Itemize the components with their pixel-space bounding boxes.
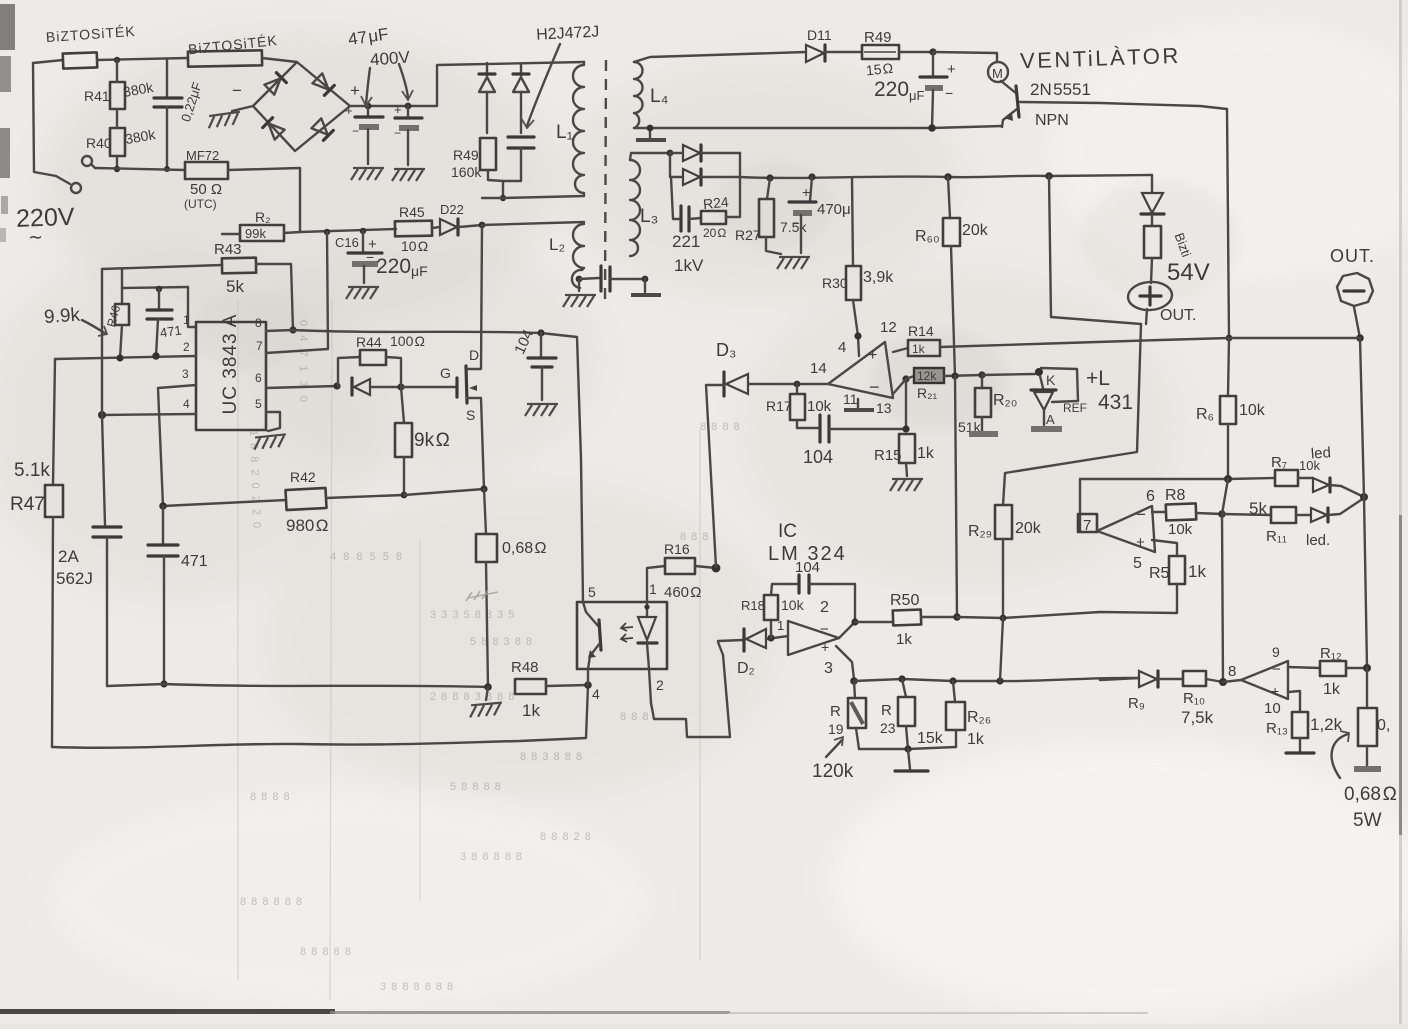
svg-text:L₃: L₃	[640, 206, 658, 227]
svg-text:led.: led.	[1306, 532, 1330, 549]
wire pin2	[55, 356, 196, 359]
svg-text:OUT.: OUT.	[1330, 246, 1375, 266]
svg-text:R18: R18	[741, 598, 765, 613]
svg-text:8 8 8 8 8: 8 8 8 8 8	[300, 946, 352, 958]
resistor R48 1k	[511, 659, 588, 720]
svg-text:R43: R43	[214, 241, 242, 258]
svg-text:S: S	[466, 407, 475, 423]
node L3 bottom	[642, 276, 649, 283]
ground at R48	[469, 687, 503, 717]
dashed transformer core	[605, 60, 606, 300]
node R20 top	[978, 371, 985, 378]
svg-text:K: K	[1046, 372, 1056, 388]
wire opto pin2 jog	[651, 642, 730, 737]
resistor R40 380k	[86, 109, 157, 169]
wire opto pin1 to R16	[647, 566, 665, 602]
svg-text:1k: 1k	[1188, 562, 1206, 581]
svg-text:2: 2	[820, 599, 829, 616]
diode Dr2	[670, 153, 740, 185]
resistor R49 15ohm	[862, 29, 933, 78]
svg-text:10k: 10k	[807, 398, 832, 415]
svg-text:4 8 8 5 5 8: 4 8 8 5 5 8	[330, 551, 404, 563]
svg-text:471: 471	[159, 322, 183, 340]
svg-text:6: 6	[1146, 488, 1155, 505]
wire lower bus	[854, 678, 1139, 681]
svg-text:R42: R42	[290, 469, 316, 485]
wire stub rail to R46 rail	[121, 269, 123, 288]
node diode left	[333, 382, 340, 389]
resistor R20 51k	[958, 375, 1017, 435]
svg-text:+: +	[1271, 683, 1279, 699]
resistor 0.68 source sense	[476, 489, 546, 687]
resistor R45 10ohm	[395, 204, 432, 254]
node gnd R23	[904, 745, 911, 752]
svg-text:R₆: R₆	[1196, 406, 1214, 423]
svg-text:10k: 10k	[781, 597, 805, 613]
svg-text:MF72: MF72	[186, 148, 219, 163]
node pin7 riser	[324, 229, 330, 235]
wire pin2 drop to R47	[53, 359, 55, 485]
node cap1 top	[365, 103, 372, 110]
svg-text:470μ: 470μ	[817, 201, 851, 218]
inductor L4	[634, 62, 669, 128]
wire MF72 to corner down	[228, 168, 300, 232]
svg-text:1: 1	[649, 581, 657, 597]
svg-text:8 8 8 8: 8 8 8 8	[700, 421, 741, 433]
svg-text:8 8 8 8: 8 8 8 8	[250, 791, 291, 803]
svg-text:120k: 120k	[812, 761, 854, 782]
svg-text:D22: D22	[440, 202, 464, 217]
capacitor left 471	[93, 527, 121, 686]
svg-text:1k: 1k	[917, 445, 935, 462]
electrolytic cap 47uF no2	[392, 102, 425, 181]
svg-text:5W: 5W	[1353, 810, 1382, 831]
node L4 bottom	[647, 125, 654, 132]
svg-text:−: −	[232, 81, 242, 100]
wire R46 rail	[122, 287, 188, 288]
electrolytic cap 47uF no1	[345, 103, 384, 180]
wire mains bottom line	[95, 168, 185, 170]
ground lower divider	[895, 749, 928, 771]
node R48 left	[484, 683, 492, 691]
svg-text:3: 3	[182, 367, 189, 381]
svg-text:+: +	[350, 81, 360, 100]
svg-text:R14: R14	[908, 323, 934, 339]
node cap022 bottom	[164, 166, 170, 172]
resistor 9k gate-source	[395, 387, 450, 495]
TL431 U3	[1031, 367, 1133, 429]
wire left riser x102	[102, 269, 105, 525]
svg-text:8 8 8 2 8: 8 8 8 2 8	[540, 831, 592, 843]
resistor R17 10k	[766, 384, 832, 428]
svg-text:0,68 Ω: 0,68 Ω	[1344, 784, 1397, 805]
node top R41	[114, 57, 120, 63]
left edge scan marks	[0, 4, 15, 50]
resistor R27 7.5k	[735, 178, 807, 254]
svg-text:5: 5	[588, 584, 596, 600]
capacitor 104 fb	[797, 415, 906, 467]
wire pin7 riser	[266, 232, 328, 353]
svg-text:54V: 54V	[1167, 259, 1210, 286]
resistor R2 99k	[222, 209, 300, 241]
node R50 right	[953, 613, 961, 621]
resistor R49 160k clamp	[451, 138, 503, 181]
svg-text:R49: R49	[864, 29, 892, 46]
diode D9	[1100, 671, 1183, 712]
capacitor H2J472J clamp	[503, 137, 534, 198]
svg-text:8 8 8 8 8 8: 8 8 8 8 8 8	[240, 896, 303, 908]
svg-text:8 8 8: 8 8 8	[620, 711, 649, 723]
svg-text:8: 8	[1228, 663, 1236, 680]
node L2 bottom	[576, 276, 583, 283]
svg-text:50 Ω: 50 Ω	[190, 181, 222, 198]
svg-text:11: 11	[843, 391, 858, 407]
node 220uF bottom	[928, 124, 936, 132]
svg-text:R₁₁: R₁₁	[1266, 528, 1287, 545]
inductor L1 primary	[556, 62, 584, 196]
ground R27 470u	[777, 257, 810, 269]
svg-text:10k: 10k	[1239, 402, 1266, 419]
op-amp U1d pins 8 9 10	[1223, 644, 1288, 717]
svg-text:23: 23	[880, 720, 896, 736]
label 0.68 5W arrow	[1332, 731, 1397, 831]
wire pin4 vcc stub	[858, 336, 859, 356]
svg-text:5: 5	[1133, 555, 1142, 572]
diode pin6	[352, 378, 401, 395]
resistor R47 5.1k	[10, 460, 63, 747]
svg-text:H2J472J: H2J472J	[536, 23, 600, 43]
svg-text:R8: R8	[1165, 487, 1186, 504]
wire pin8 vcc rail	[266, 330, 583, 602]
svg-text:+: +	[947, 61, 956, 78]
wire fan return	[634, 126, 1002, 128]
diode D22	[432, 202, 482, 235]
wire mid bus	[957, 612, 1177, 618]
svg-text:C16: C16	[335, 235, 359, 250]
svg-text:2N 5551: 2N 5551	[1030, 80, 1091, 99]
svg-text:2A: 2A	[58, 547, 79, 566]
svg-text:3,9k: 3,9k	[863, 269, 894, 286]
svg-text:R₂₀: R₂₀	[993, 392, 1017, 409]
node cap471a bottom	[152, 352, 160, 360]
svg-text:+: +	[345, 103, 353, 118]
wire main 54V bus	[740, 175, 1152, 178]
svg-text:R₂₆: R₂₆	[967, 709, 991, 726]
svg-text:M: M	[992, 66, 1003, 81]
svg-text:+: +	[394, 102, 402, 117]
resistor 0.68 5W	[1354, 668, 1381, 769]
thermistor MF72	[184, 148, 228, 211]
capacitor 471a	[147, 289, 183, 356]
svg-text:+: +	[1136, 534, 1145, 551]
svg-text:1: 1	[183, 313, 190, 327]
svg-text:5.1k: 5.1k	[14, 460, 50, 481]
resistor R18 10k feedback	[741, 584, 805, 638]
wire comp riser	[1222, 479, 1228, 682]
svg-text:−: −	[352, 124, 359, 138]
capacitor 471b	[148, 506, 208, 684]
label 220V	[16, 203, 76, 247]
svg-text:D11: D11	[807, 27, 832, 43]
led D11b	[1311, 498, 1364, 522]
resistor R44 100ohm parallel	[338, 333, 425, 387]
label 47uF 400V with arrows	[347, 25, 413, 106]
svg-text:R41: R41	[84, 88, 110, 104]
svg-text:R16: R16	[664, 541, 690, 557]
resistor R26 1k	[946, 681, 991, 748]
svg-text:R₇: R₇	[1271, 454, 1287, 471]
svg-text:+: +	[821, 639, 829, 655]
svg-text:(UTC): (UTC)	[184, 197, 217, 211]
svg-text:0,68 Ω: 0,68 Ω	[502, 540, 546, 557]
capacitor 104 vcc	[511, 327, 558, 416]
wire -OUT stem	[1354, 307, 1360, 338]
svg-text:1k: 1k	[1323, 681, 1341, 698]
node -OUT	[1356, 334, 1364, 342]
wire L1 bottom to drain rail	[482, 196, 584, 198]
svg-text:8: 8	[255, 316, 262, 330]
svg-text:10 Ω: 10 Ω	[401, 238, 428, 254]
resistor R41 380k	[84, 60, 155, 109]
svg-text:R44: R44	[356, 334, 382, 350]
svg-text:R₂: R₂	[255, 209, 271, 225]
wire pin4	[102, 414, 196, 415]
svg-text:4: 4	[838, 339, 846, 356]
resistor R21 12k	[906, 368, 982, 401]
svg-text:160k: 160k	[451, 164, 482, 180]
svg-text:980 Ω: 980 Ω	[286, 516, 329, 535]
inductor L2 aux	[549, 224, 584, 288]
svg-text:R₉: R₉	[1128, 695, 1145, 712]
svg-text:9.9k: 9.9k	[43, 305, 81, 328]
node led join	[1360, 493, 1368, 501]
resistor R5 1k	[1149, 540, 1206, 613]
wire R60 riser lower	[955, 376, 957, 617]
svg-text:D₂: D₂	[737, 660, 755, 677]
svg-text:13: 13	[876, 400, 892, 416]
resistor R6 10k	[1196, 338, 1266, 479]
node op1 out	[851, 618, 858, 625]
svg-text:9k Ω: 9k Ω	[414, 430, 450, 451]
svg-text:R45: R45	[399, 204, 425, 220]
resistor R16 460ohm	[664, 541, 716, 601]
svg-text:4: 4	[592, 686, 600, 702]
wire gate	[401, 386, 455, 388]
wire R43 to pin8 drop	[256, 264, 293, 330]
node cap2 top	[405, 103, 412, 110]
ground under L2	[563, 279, 596, 307]
wire pin1 riser	[188, 287, 196, 327]
node R46 bottom	[116, 354, 123, 361]
wire step to +OUT	[1049, 176, 1141, 324]
resistor R14 1k	[893, 323, 1360, 356]
diode D3	[706, 340, 828, 567]
node pin4 left	[98, 411, 106, 419]
diode D2	[718, 629, 788, 677]
svg-text:R₂₉: R₂₉	[968, 523, 992, 540]
transistor Q2 2N5551	[1001, 80, 1227, 129]
svg-text:3 3 3 5 8 8 3 5: 3 3 3 5 8 8 3 5	[430, 609, 515, 621]
resistor R12 1k	[1288, 645, 1367, 698]
wire R42 rail to source	[404, 489, 484, 495]
capacitor C16 220uF	[335, 231, 428, 299]
motor M	[988, 62, 1008, 82]
bottom scan edge	[0, 1009, 335, 1014]
fuse Bizti 54V	[1144, 226, 1194, 283]
svg-text:12k: 12k	[917, 369, 937, 383]
wire R19 R23 R26 bottoms	[859, 747, 956, 749]
node base R14	[1226, 335, 1233, 342]
stub under L4	[636, 128, 666, 140]
svg-text:R₂₁: R₂₁	[917, 385, 938, 401]
terminal +OUT	[1127, 280, 1196, 324]
node plus bus left	[850, 677, 858, 685]
svg-text:20k: 20k	[1015, 520, 1042, 537]
svg-text:∼: ∼	[28, 227, 43, 247]
svg-text:19: 19	[828, 721, 844, 737]
svg-text:5: 5	[255, 397, 262, 411]
wire L4 top to D11	[634, 52, 806, 62]
svg-text:R: R	[830, 703, 841, 720]
capacitor 220uF fan	[874, 52, 956, 128]
svg-text:−: −	[394, 126, 401, 140]
svg-text:R48: R48	[511, 659, 539, 676]
svg-text:−: −	[366, 249, 374, 265]
fuse F1	[45, 23, 136, 69]
svg-text:+: +	[802, 184, 810, 200]
diode D11	[806, 27, 862, 62]
resistor R50 1k	[855, 592, 957, 648]
opto pin labels	[588, 581, 664, 702]
resistor R60 20k	[915, 177, 989, 376]
clamp diode Db	[513, 64, 529, 133]
svg-text:2 8 8 8 3 8 8 8: 2 8 8 8 3 8 8 8	[430, 691, 515, 703]
svg-text:10k: 10k	[1168, 521, 1193, 538]
node 220uF top	[929, 48, 936, 55]
svg-text:+: +	[868, 347, 877, 364]
resistor R19 120k	[828, 681, 866, 749]
resistor R11 5k	[1222, 507, 1311, 545]
svg-text:R50: R50	[890, 592, 919, 609]
resistor R7 10k	[1271, 454, 1320, 486]
resistor R15 1k	[874, 434, 935, 491]
node pin4 vcc	[854, 332, 861, 339]
IC UC3843A	[196, 314, 266, 430]
wire op1 plus drop	[836, 646, 854, 679]
node R12 right	[1363, 664, 1371, 672]
svg-text:R40: R40	[86, 135, 112, 151]
optocoupler U2	[577, 602, 667, 703]
label 2A 5623	[56, 547, 93, 588]
svg-text:D: D	[469, 347, 479, 363]
inductor L3	[630, 160, 658, 256]
node C16 top	[360, 228, 366, 234]
svg-text:−: −	[945, 85, 953, 101]
svg-text:104: 104	[795, 559, 820, 576]
wire gnd rail mid	[107, 684, 488, 687]
fuse F2	[187, 32, 278, 67]
svg-text:6: 6	[255, 371, 262, 385]
svg-text:−: −	[1136, 505, 1146, 524]
svg-text:R5: R5	[1149, 565, 1170, 582]
resistor R42 980ohm	[286, 469, 404, 535]
node R23 top	[898, 675, 905, 682]
ground pin11	[844, 399, 874, 410]
wire op1 out	[839, 622, 855, 638]
svg-text:L₂: L₂	[549, 235, 565, 254]
wire R42 rail	[163, 500, 286, 506]
node rectifier anodes	[667, 150, 674, 157]
faint erased ground	[466, 590, 498, 601]
svg-text:220V: 220V	[16, 203, 76, 233]
wire rectifier join	[739, 153, 741, 177]
wire R29 lower link	[1000, 618, 1003, 681]
node op1 inv	[767, 634, 774, 641]
svg-text:R17: R17	[766, 398, 792, 414]
svg-text:1k: 1k	[896, 631, 912, 648]
resistor R43 5k	[214, 241, 256, 296]
led D7	[1313, 478, 1364, 497]
svg-text:20 Ω: 20 Ω	[703, 226, 726, 240]
capacitor 470u	[789, 177, 851, 253]
svg-text:IC: IC	[778, 521, 797, 542]
wire R29 from TL431 corner	[1003, 324, 1141, 505]
pin labels UC3843	[182, 313, 263, 411]
node comparator in	[1219, 678, 1227, 686]
svg-text:led: led	[1310, 444, 1331, 462]
svg-text:12: 12	[880, 319, 897, 336]
svg-text:460 Ω: 460 Ω	[664, 584, 702, 601]
svg-text:L₄: L₄	[650, 86, 669, 107]
node pin3 bottom	[159, 502, 167, 510]
svg-text:R₆₀: R₆₀	[915, 228, 940, 245]
wire top feedback rail	[1080, 478, 1275, 479]
svg-text:3: 3	[824, 660, 833, 677]
svg-text:3 8 8 8 8 8: 3 8 8 8 8 8	[460, 851, 523, 863]
bridge rectifier	[253, 62, 350, 151]
node R27 top	[766, 174, 773, 181]
svg-text:−: −	[820, 621, 829, 638]
svg-text:20k: 20k	[962, 222, 989, 239]
node 9k bottom	[401, 492, 408, 499]
node drain at D22	[479, 222, 486, 229]
wire fuse2 to bridge top	[262, 58, 297, 62]
wire pin5 to ground	[266, 412, 280, 431]
svg-text:10: 10	[1264, 700, 1281, 717]
node R29 bottom	[1000, 615, 1007, 622]
svg-text:REF: REF	[1063, 401, 1087, 415]
svg-text:2: 2	[656, 677, 664, 693]
wire bottom return rail	[52, 685, 588, 748]
wire fuse1 to fuse2	[97, 58, 188, 60]
right edge scan line	[1399, 0, 1402, 1024]
svg-text:5 8 8 3 8 8: 5 8 8 3 8 8	[470, 636, 533, 648]
coupling capacitor L2-L3	[579, 266, 645, 291]
terminal -OUT	[1337, 273, 1373, 306]
svg-text:9: 9	[1272, 644, 1280, 660]
label 120k arrow	[812, 737, 854, 782]
svg-text:7,5k: 7,5k	[1181, 708, 1214, 727]
wire R43 rail	[102, 265, 222, 269]
node R17 top	[794, 381, 801, 388]
resistor R8 10k	[1152, 487, 1222, 538]
svg-text:0,: 0,	[1377, 717, 1390, 734]
svg-text:R: R	[881, 702, 892, 719]
resistor R43b 1.2k	[1266, 691, 1343, 753]
label H2J472J with arrow	[521, 23, 600, 128]
resistor R23 15k	[880, 679, 944, 749]
wire R2 node to C16 and R45	[300, 229, 396, 232]
